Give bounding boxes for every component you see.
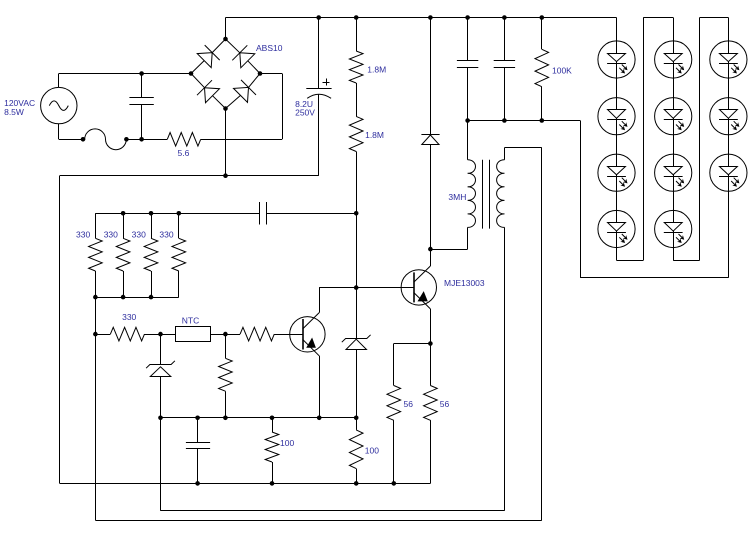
node NTC row / zener2 (158, 332, 163, 337)
LED D20 (column 3 row 3) (710, 154, 747, 191)
resistor R9 330 (89, 238, 103, 271)
wire mid rail (caps/100K bottom) (468, 120, 581, 122)
wire AC source bottom lead (58, 124, 60, 140)
node top rail / cap C4 (502, 15, 507, 20)
wire left tall vertical (neg rail to ground rail) (59, 176, 61, 484)
wire AC bottom to fuse (59, 139, 83, 141)
wire cap to 5.6 resistor (142, 139, 168, 141)
inductor L1 primary 3MH (468, 160, 476, 228)
node 330 bottom rail (121, 295, 126, 300)
node rail2 / R15 (223, 416, 228, 421)
wire top rail (DC+ bus) (226, 17, 617, 19)
svg-text:330: 330 (122, 312, 136, 322)
bridge diode D1 (left vertex to top, ABS10) (191, 61, 204, 74)
svg-text:3MH: 3MH (448, 192, 466, 202)
wire rail2 (emitter bias rail) (161, 417, 357, 419)
node mid rail / C4 (502, 118, 507, 123)
node MJE emitter node (428, 341, 433, 346)
capacitor C2 8.2U 250V (electrolytic) (318, 18, 320, 89)
wire 1.8M chain top (356, 18, 358, 52)
wire bridge top lead (225, 18, 227, 40)
wire LED col1 return (617, 260, 644, 262)
wire 100K top (541, 18, 543, 50)
transformer core (482, 160, 484, 229)
resistor R16 100 (272, 418, 274, 432)
wire 100K bottom (541, 87, 543, 121)
node 330 top rail (121, 211, 126, 216)
LED D17 (column 2 row 4) (655, 210, 692, 247)
svg-text:330: 330 (104, 229, 118, 239)
node ground rail / R16 (270, 481, 275, 486)
wire ground rail (60, 483, 431, 485)
svg-text:56: 56 (440, 399, 450, 409)
node mid rail / 100K (540, 118, 545, 123)
svg-text:ABS10: ABS10 (256, 43, 283, 53)
wire 5.6 to bridge right (201, 139, 282, 141)
resistor R14 (base series) (240, 327, 274, 341)
node 330 top rail (149, 211, 154, 216)
svg-text:NTC: NTC (182, 315, 199, 325)
wire bridge bottom to negative rail (225, 109, 227, 176)
wire 56b top (430, 344, 432, 386)
node top rail / diode D5 (428, 15, 433, 20)
svg-text:330: 330 (159, 229, 173, 239)
LED D14 (column 2 row 1) (655, 41, 692, 78)
diode D5 (flyback to DC+ rail) (421, 134, 439, 136)
node 330h left (93, 332, 98, 337)
wire primary bottom (467, 227, 469, 249)
capacitor C3 (467, 18, 469, 61)
wire zener1 to 100 resistor (356, 418, 358, 430)
resistor R11 330 (144, 238, 158, 271)
wire emitter node branch (394, 343, 431, 345)
thermistor NTC (161, 334, 176, 336)
svg-text:100: 100 (365, 446, 379, 456)
wire 100 to ground rail (356, 469, 358, 484)
wire NTC to node (210, 334, 225, 336)
node fuse right (124, 137, 129, 142)
node coupling cap / divider (354, 211, 359, 216)
node ground rail / 100 (354, 481, 359, 486)
node top rail / 1.8M chain (354, 15, 359, 20)
wire 1.8M to base node (356, 152, 358, 339)
wire feedback winding top route bottom (95, 520, 541, 522)
resistor R12 330 (172, 238, 186, 271)
svg-text:1.8M: 1.8M (365, 130, 384, 140)
svg-text:MJE13003: MJE13003 (444, 278, 485, 288)
wire fuse to cap (126, 139, 141, 141)
node top rail / 100K (540, 15, 545, 20)
wire 56b bottom (430, 420, 432, 483)
node top rail / 8.2U cap (316, 15, 321, 20)
wire 330 block to feedback route (95, 297, 97, 520)
svg-text:100K: 100K (552, 66, 572, 76)
wire LED col2 return (673, 260, 699, 262)
wire LED col3 bottom to return vertical (580, 277, 728, 279)
wire 56a bottom (393, 420, 395, 483)
node base node on divider (354, 285, 359, 290)
capacitor C1 (input) (129, 97, 153, 99)
node 330 top rail (177, 211, 182, 216)
bridge diode D2 (right vertex to top, ABS10) (248, 61, 260, 74)
node input cap top (139, 71, 144, 76)
LED D12 (column 1 row 3) (598, 154, 635, 191)
svg-text:56: 56 (404, 399, 414, 409)
resistor R5 100 (349, 430, 363, 469)
node mid rail / C3 / primary (465, 118, 470, 123)
node top rail / cap C3 (465, 15, 470, 20)
resistor R7 56 (387, 386, 401, 421)
bridge diode D3 (bottom vertex to left, ABS10) (213, 96, 226, 109)
resistor R6 100K (535, 49, 549, 86)
resistor R8 56 (424, 386, 438, 421)
node 330 bottom rail (149, 295, 154, 300)
node 330 bottom rail (93, 295, 98, 300)
svg-text:100: 100 (280, 438, 294, 448)
wire zener2 column to secondary bottom (161, 510, 505, 512)
wire AC source top lead (58, 74, 60, 88)
node rail2 / C6 (195, 416, 200, 421)
svg-text:1.8M: 1.8M (367, 65, 386, 75)
wire secondary top route (504, 148, 506, 160)
wire AC source top (59, 73, 191, 75)
node ground rail / C6 (195, 481, 200, 486)
LED D16 (column 2 row 3) (655, 154, 692, 191)
wire 330 block bottom rail (95, 297, 178, 299)
node bridge left vertex (189, 71, 194, 76)
node bridge right vertex (258, 71, 263, 76)
node rail2 / zener1 (354, 416, 359, 421)
resistor R13 330 (110, 327, 144, 341)
fuse F1 (83, 129, 126, 150)
LED D18 (column 3 row 1) (710, 41, 747, 78)
node rail2 / Q2 emitter (317, 416, 322, 421)
svg-text:5.6: 5.6 (178, 148, 190, 158)
LED D10 (column 1 row 1) (598, 41, 635, 78)
wire negative rail (60, 175, 319, 177)
wire secondary bottom route (504, 227, 506, 510)
node bridge top vertex (223, 37, 228, 42)
wire primary top (467, 121, 469, 160)
wire LED column 1 spine (616, 18, 618, 261)
node ground rail / 56a (392, 481, 397, 486)
node bridge bottom vertex (223, 106, 228, 111)
AC source V1 120VAC 8.5W (41, 87, 77, 123)
node fuse left (81, 137, 86, 142)
label + polarity (323, 82, 330, 84)
node input cap bottom (139, 137, 144, 142)
LED D19 (column 3 row 2) (710, 98, 747, 135)
wire 330 block top rail (95, 213, 259, 215)
svg-text:330: 330 (76, 229, 90, 239)
zener diode Z2 (160, 334, 162, 364)
node NTC right node (223, 332, 228, 337)
LED D11 (column 1 row 2) (598, 98, 635, 135)
node rail2 / R16 (270, 416, 275, 421)
wire LED return vertical (580, 121, 582, 278)
resistor R3 1.8M (349, 51, 363, 83)
wire diode D5 cathode (430, 18, 432, 135)
inductor L2 secondary (feedback winding) (497, 160, 505, 228)
svg-text:250V: 250V (295, 108, 315, 118)
capacitor C4 (504, 18, 506, 61)
LED D13 (column 1 row 4) (598, 210, 635, 247)
svg-text:8.5W: 8.5W (4, 107, 24, 117)
resistor R15 (NTC node to rail2) (225, 334, 227, 358)
resistor R2 5.6 (167, 133, 200, 147)
zener diode Z1 (346, 339, 367, 349)
node collector node (428, 247, 433, 252)
svg-text:330: 330 (132, 229, 146, 239)
node rail2 / zener2 branch (158, 416, 163, 421)
wire Q2 collector / MJE base row (319, 287, 356, 289)
capacitor C5 (coupling) (259, 202, 261, 225)
capacitor C6 (197, 418, 199, 443)
resistor R10 330 (116, 238, 130, 271)
transistor Q1 MJE13003 (401, 270, 436, 305)
node negative rail / bridge (223, 173, 228, 178)
wire base node to MJE base (319, 287, 413, 289)
resistor R4 1.8M (349, 116, 363, 151)
wire LED column 2 spine (673, 18, 675, 261)
wire between 1.8M resistors (356, 83, 358, 116)
transistor Q2 (290, 317, 325, 352)
wire LED column 3 spine (728, 18, 730, 278)
LED D15 (column 2 row 2) (655, 98, 692, 135)
bridge diode D4 (bottom vertex to right, ABS10) (226, 95, 241, 108)
